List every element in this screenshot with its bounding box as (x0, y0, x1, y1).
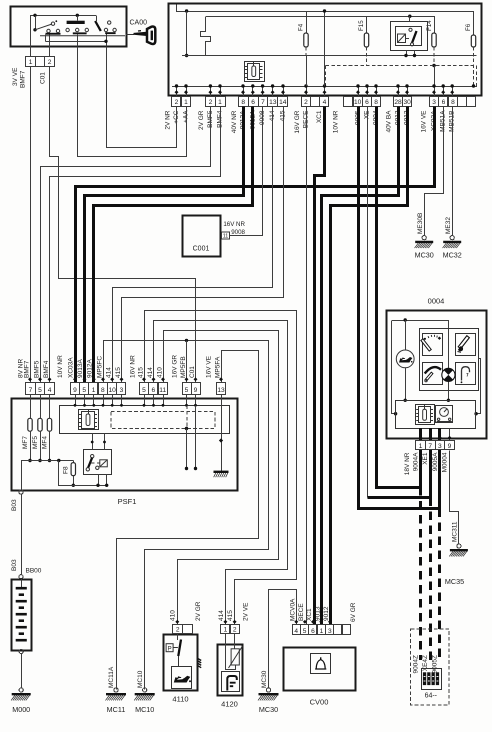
cluster gauge icon (436, 406, 453, 423)
PSF1 pin diamonds (28, 377, 32, 381)
svg-text:7: 7 (428, 443, 432, 450)
svg-text:XE1: XE1 (422, 452, 429, 465)
dashed connector region in fuse box (326, 65, 477, 67)
BECE wire inside box from F4 (306, 56, 308, 87)
svg-text:4: 4 (294, 628, 298, 635)
wire 414 lower (154, 321, 288, 625)
module stub wires with end dots (186, 405, 188, 428)
wire 9008 to C001 (230, 107, 263, 236)
svg-text:13: 13 (217, 387, 225, 394)
key symbol (126, 34, 135, 36)
svg-text:1: 1 (218, 99, 222, 106)
svg-text:2V GR: 2V GR (198, 110, 205, 130)
wire XC03A (bold) (76, 107, 435, 383)
svg-text:9005A: 9005A (432, 452, 439, 471)
module top dots (75, 394, 77, 405)
svg-text:MC311: MC311 (452, 521, 459, 542)
svg-text:415: 415 (227, 610, 234, 621)
wire XE4Z dashed (429, 497, 432, 660)
module dashed box (111, 412, 215, 429)
svg-text:9012: 9012 (323, 606, 330, 621)
svg-text:XC1: XC1 (316, 110, 323, 123)
svg-text:MF7: MF7 (22, 436, 29, 449)
wire M0004 (450, 451, 459, 544)
contact group 1 (35, 15, 37, 29)
svg-text:C01: C01 (40, 72, 47, 84)
svg-text:ME32: ME32 (445, 217, 452, 234)
svg-text:14: 14 (279, 99, 287, 106)
wire 9012 (bold) (331, 107, 408, 625)
svg-text:BMF5: BMF5 (34, 360, 41, 378)
relay legs upper (92, 434, 94, 450)
4120 pins (221, 625, 230, 634)
bell icon (311, 654, 331, 674)
svg-text:MP5FB: MP5FB (180, 356, 187, 378)
cluster pin row (416, 441, 426, 450)
svg-text:F15: F15 (358, 20, 365, 31)
svg-text:BECE: BECE (298, 603, 305, 621)
svg-text:2: 2 (48, 59, 52, 66)
cluster chip icon (416, 405, 435, 425)
wire XE (367, 106, 369, 497)
fuse F6 (471, 35, 475, 47)
svg-text:6: 6 (365, 99, 369, 106)
svg-text:MF5: MF5 (32, 436, 39, 449)
svg-text:MC10: MC10 (137, 670, 144, 688)
CV00 pin diamonds (294, 620, 298, 624)
svg-text:1: 1 (92, 387, 96, 394)
svg-text:MC35: MC35 (445, 577, 464, 586)
svg-text:11: 11 (223, 233, 229, 239)
fuse F15 (366, 16, 368, 33)
fuse box outer rect (169, 4, 482, 96)
econometer icon (423, 363, 443, 385)
contact link wire (45, 35, 47, 42)
svg-text:16V VE: 16V VE (421, 110, 428, 133)
left leg (392, 321, 396, 414)
svg-text:1: 1 (184, 99, 188, 106)
inner strip line L1 (182, 55, 477, 57)
4110 pins (173, 625, 183, 634)
contact group 2 (67, 21, 85, 24)
right link wire (477, 359, 481, 414)
inner rail A wire (177, 5, 474, 36)
cluster top wire (392, 320, 449, 322)
svg-text:PSF1: PSF1 (118, 497, 137, 506)
PSF1 pin row (26, 383, 36, 395)
wire XC1 (bold, jog) (315, 107, 325, 625)
svg-text:8: 8 (101, 387, 105, 394)
svg-text:C01: C01 (189, 366, 196, 378)
wire BMF7 (30, 66, 32, 382)
gauge grid box (420, 329, 479, 391)
CV00 pin row (293, 625, 301, 635)
svg-text:3: 3 (328, 628, 332, 635)
battery cells (21, 579, 23, 588)
mechanical link line to key (40, 35, 125, 37)
XC1 wire inside box (324, 11, 326, 86)
svg-text:40V BA: 40V BA (386, 110, 393, 133)
cluster lower box (396, 401, 476, 429)
fuel sender 4120 (218, 645, 243, 696)
svg-text:XC1: XC1 (306, 608, 313, 621)
svg-text:1: 1 (29, 59, 33, 66)
svg-text:7: 7 (261, 99, 265, 106)
svg-text:MC32: MC32 (443, 251, 462, 260)
svg-text:ME30B: ME30B (417, 213, 424, 234)
fuse F8 (73, 461, 75, 463)
wire 9013 (bold) (322, 107, 399, 625)
svg-text:13: 13 (269, 99, 277, 106)
center wire through gauges (448, 320, 450, 400)
module chip icon (79, 410, 99, 430)
cluster pin stubs (419, 428, 422, 441)
PSF1 internal bus (21, 460, 73, 462)
svg-text:CV00: CV00 (310, 698, 329, 707)
wire 9005 (bold) (359, 107, 440, 509)
svg-text:9004Z: 9004Z (412, 655, 419, 673)
svg-text:MF4: MF4 (41, 436, 48, 449)
display unit 64 dashed box (411, 629, 449, 705)
svg-text:5: 5 (38, 387, 42, 394)
oil pressure indicator (405, 320, 407, 350)
svg-text:4: 4 (323, 99, 327, 106)
svg-text:410: 410 (169, 610, 176, 621)
svg-text:7: 7 (29, 387, 33, 394)
ground M000 (19, 688, 23, 692)
svg-text:MC11A: MC11A (108, 666, 115, 688)
4120 resistor (234, 634, 236, 649)
wire MP5FA (117, 351, 259, 690)
svg-text:16V NR: 16V NR (130, 355, 137, 378)
wire +CC (107, 47, 177, 148)
svg-text:B03: B03 (11, 559, 18, 571)
svg-text:2: 2 (233, 627, 237, 634)
svg-text:6: 6 (151, 387, 155, 394)
wire MP5FC (104, 341, 269, 690)
bus drop wire (59, 461, 107, 486)
svg-text:5: 5 (142, 387, 146, 394)
svg-text:BMF7: BMF7 (24, 360, 31, 378)
fuse F14 (434, 16, 436, 33)
svg-text:30: 30 (404, 99, 412, 106)
svg-text:BMF4: BMF4 (43, 360, 50, 378)
svg-text:414: 414 (147, 367, 154, 378)
svg-text:MCV0A: MCV0A (289, 598, 296, 621)
svg-text:1: 1 (320, 628, 324, 635)
feed wire to module (186, 11, 188, 56)
svg-text:3: 3 (432, 99, 436, 106)
svg-text:414: 414 (106, 367, 113, 378)
svg-text:4110: 4110 (172, 695, 188, 704)
rail B wire (206, 16, 434, 18)
svg-text:9005Z: 9005Z (432, 655, 439, 673)
svg-text:C001: C001 (193, 246, 210, 253)
ignition switch CA00 box (11, 7, 127, 47)
4110 interior (166, 644, 173, 652)
wire 9012A (bold) (94, 107, 253, 383)
svg-text:2: 2 (304, 99, 308, 106)
relay legs (406, 50, 408, 56)
wire to pin 1 inside CA00 (30, 16, 32, 57)
svg-text:MC30: MC30 (415, 251, 434, 260)
svg-text:3: 3 (120, 387, 124, 394)
svg-text:9008: 9008 (231, 229, 245, 236)
PSF1 fuses MF7 MF5 MF4 (30, 394, 32, 418)
svg-text:9012A: 9012A (87, 359, 94, 378)
svg-text:2V GR: 2V GR (195, 601, 202, 621)
ground MC35 (457, 544, 461, 548)
svg-text:64--: 64-- (425, 693, 438, 700)
C001 pin 11 (222, 232, 230, 239)
svg-text:6V GR: 6V GR (350, 602, 357, 622)
svg-text:415: 415 (138, 367, 145, 378)
svg-text:410: 410 (157, 367, 164, 378)
4110 oil icon (172, 667, 192, 689)
svg-text:8: 8 (451, 99, 455, 106)
wire BECE (full drop) (306, 106, 308, 625)
wire 9005Z dashed (438, 509, 441, 660)
svg-text:5: 5 (185, 387, 189, 394)
relay K (top box) (391, 22, 428, 51)
fuse F4 (306, 11, 308, 33)
ground MC30 lower (266, 688, 270, 692)
wire 9013A (bold) (85, 107, 244, 383)
svg-text:16V VE: 16V VE (206, 355, 213, 378)
svg-text:8: 8 (241, 99, 245, 106)
PSF1 module box (60, 406, 230, 434)
svg-text:415: 415 (115, 367, 122, 378)
notch wire (201, 17, 211, 56)
svg-text:MC10: MC10 (135, 705, 154, 714)
svg-text:BMF7: BMF7 (20, 70, 27, 88)
top box pin stubs and junction dots (176, 86, 178, 96)
4110 case ground hatch (198, 659, 201, 668)
svg-text:1: 1 (419, 443, 423, 450)
cluster 0004 box (387, 311, 487, 439)
svg-text:2: 2 (176, 627, 180, 634)
PSF1 relay (84, 450, 112, 475)
wire 414 upper (113, 107, 273, 383)
svg-text:B03: B03 (11, 499, 18, 511)
warning symbol (center) (442, 368, 455, 381)
wire BMF4 (50, 107, 221, 383)
wire 410 (164, 331, 279, 625)
svg-text:40V NR: 40V NR (231, 110, 238, 133)
svg-text:4: 4 (48, 387, 52, 394)
svg-text:F8: F8 (63, 466, 70, 474)
wire 9004Z dashed (419, 487, 422, 660)
svg-text:MC11: MC11 (107, 705, 126, 714)
oil pressure switch 4110 (164, 635, 198, 691)
svg-text:414: 414 (218, 610, 225, 621)
wire MCV0A (269, 590, 297, 688)
wire +AA (78, 47, 187, 157)
svg-text:M0004: M0004 (442, 452, 449, 472)
svg-text:2: 2 (209, 99, 213, 106)
svg-text:9013: 9013 (314, 606, 321, 621)
wire 415 upper (122, 107, 284, 383)
svg-text:28: 28 (394, 99, 402, 106)
PSF1 internal ground (221, 405, 223, 433)
wire BMF5 (41, 107, 211, 383)
svg-text:0004: 0004 (428, 297, 445, 306)
svg-text:5: 5 (82, 387, 86, 394)
svg-text:6: 6 (251, 99, 255, 106)
4120 fuel icon (222, 672, 240, 692)
svg-text:2V NR: 2V NR (165, 110, 172, 129)
svg-text:F6: F6 (465, 23, 472, 31)
svg-text:M000: M000 (12, 705, 30, 714)
svg-text:1: 1 (224, 627, 228, 634)
svg-text:11: 11 (159, 387, 166, 394)
svg-text:BB00: BB00 (26, 568, 42, 575)
svg-text:16V GR: 16V GR (294, 110, 301, 133)
svg-text:10V NR: 10V NR (57, 355, 64, 378)
svg-text:16V NR: 16V NR (223, 221, 245, 228)
svg-text:4120: 4120 (221, 700, 238, 709)
ground MC30 (upper right) (422, 236, 426, 240)
wire to ground M000 (21, 654, 23, 688)
svg-text:F4: F4 (298, 23, 305, 31)
svg-text:10V NR: 10V NR (333, 110, 340, 133)
relay legs lower (98, 475, 100, 486)
fuel gauge icon (423, 334, 443, 356)
wire C01 (50, 67, 196, 383)
contact group 3 (96, 15, 98, 21)
svg-text:6: 6 (311, 628, 315, 635)
svg-text:8: 8 (374, 99, 378, 106)
battery BB00 box (12, 580, 32, 651)
svg-text:9013A: 9013A (77, 359, 84, 378)
svg-text:2: 2 (175, 99, 179, 106)
chip icon in fuse box (245, 62, 265, 82)
cluster output stubs (419, 450, 422, 487)
inner strip line L2 (172, 86, 477, 88)
wire MP5FB (186, 340, 188, 382)
wire MB51B (452, 106, 454, 236)
svg-text:2V VE: 2V VE (243, 602, 250, 621)
CA00 internal feed rail (30, 15, 96, 17)
svg-text:10: 10 (354, 99, 362, 106)
svg-text:CA00: CA00 (130, 20, 148, 27)
svg-text:3V VE: 3V VE (12, 67, 19, 86)
wire MB51A (425, 107, 444, 236)
svg-text:XC03A: XC03A (68, 357, 75, 378)
svg-text:9: 9 (73, 387, 77, 394)
svg-text:P: P (168, 646, 172, 652)
temp probe icon (456, 334, 476, 356)
svg-text:9004A: 9004A (413, 452, 420, 471)
CA00 connector pins 1 2 (26, 57, 36, 67)
svg-text:MP5FC: MP5FC (97, 356, 104, 378)
svg-text:3: 3 (438, 443, 442, 450)
svg-text:5: 5 (303, 628, 307, 635)
svg-text:10: 10 (108, 387, 116, 394)
ground MC10 (143, 688, 147, 692)
wire B03 (21, 494, 23, 574)
svg-text:MP5FA: MP5FA (215, 356, 222, 378)
wire XE1 (bold) (368, 441, 431, 498)
svg-text:18V NR: 18V NR (404, 452, 411, 475)
svg-text:16V GR: 16V GR (172, 355, 179, 378)
coolant temp icon (456, 363, 476, 385)
wire 9004 (bold) (377, 107, 421, 488)
svg-text:6: 6 (442, 99, 446, 106)
svg-text:9: 9 (194, 387, 198, 394)
7-segment display icon (422, 669, 442, 690)
ground MC11 (114, 688, 118, 692)
svg-text:9: 9 (448, 443, 452, 450)
top box pin row (172, 97, 181, 107)
C001 box (183, 216, 221, 257)
svg-text:MC30: MC30 (259, 705, 278, 714)
svg-text:MC30: MC30 (261, 670, 268, 688)
wire 415 lower (145, 311, 297, 625)
connector B03 at PSF1 (21, 461, 23, 490)
ground MC32 (450, 236, 454, 240)
